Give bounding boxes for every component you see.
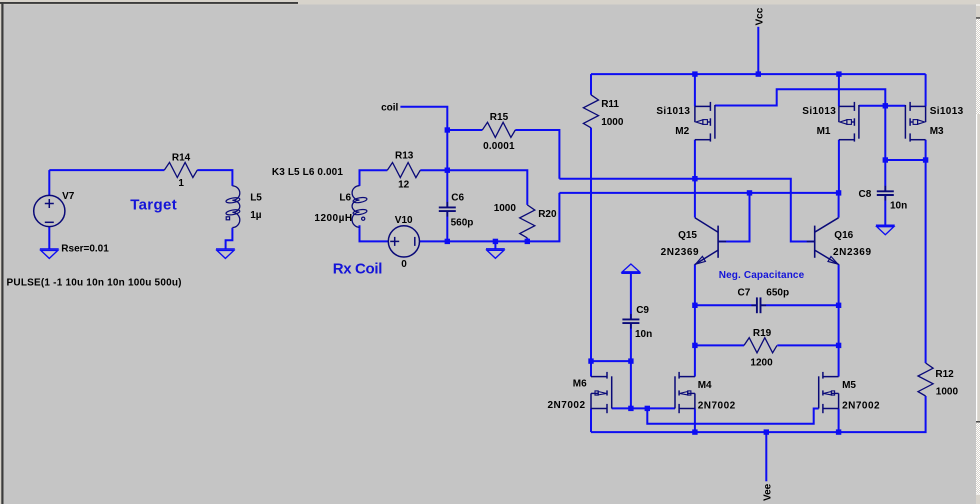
comment Rx Coil [333,261,383,278]
svg-text:0: 0 [401,259,407,270]
wire M2 drain bus [559,179,814,242]
svg-text:650p: 650p [766,288,789,299]
capacitor C8 [877,186,894,201]
net flag Vcc [754,7,765,25]
svg-text:0.0001: 0.0001 [483,141,515,152]
value Q15 2N2369 [661,247,699,258]
wire coil label to node [400,107,447,208]
voltage source V10 [388,226,419,257]
wire R11 bottom long [590,128,592,361]
label L6 [339,192,351,203]
svg-text:10n: 10n [890,200,907,211]
label Si1013 M1 [802,106,836,117]
nmos M5 [819,372,839,413]
svg-text:10n: 10n [635,329,652,340]
value M4 2N7002 [698,400,736,411]
label V10 [395,215,413,226]
label V7 [62,191,75,202]
svg-text:V10: V10 [395,215,413,226]
label R11 [601,99,619,110]
svg-text:Si1013: Si1013 [802,106,836,117]
wire R15 right down [515,130,559,179]
wire M2 gate to mirror node [715,89,885,106]
wire M6 drain to C9 [591,360,631,362]
wire L6 bottom to V10 [360,225,389,241]
wire M5 drain lead [838,345,840,376]
value M5 2N7002 [842,400,880,411]
svg-text:1200: 1200 [750,358,773,369]
wire gate node down to C8 [884,106,886,191]
npn Q16 [807,218,839,265]
svg-text:C9: C9 [636,305,649,316]
capacitor C9 [622,314,639,329]
wire V7 top lead [48,170,50,196]
label M4 [698,380,712,391]
wire R11 top [590,74,592,95]
inductor L6 [352,186,367,228]
svg-text:2N2369: 2N2369 [833,247,871,258]
wire inverted ground to C9 [630,273,632,319]
label Si1013 M3 [930,106,964,117]
inductor L5 [226,186,241,228]
wire rx ground stub [494,241,496,249]
wire Q16 emitter lead [838,264,840,305]
svg-text:R20: R20 [538,209,557,220]
inverted ground above C9 [621,264,640,273]
wire M3 drain lead long [925,140,927,363]
wire nmos gate bus [612,407,675,409]
value V10 0 [401,259,407,270]
pmos M3 [905,102,925,142]
wire top rail left circuit [49,169,164,171]
svg-text:1200µH: 1200µH [314,213,352,224]
wire node to R15 [447,129,482,131]
svg-text:R19: R19 [753,328,772,339]
wire M6 source lead [590,409,592,433]
resistor R20 [520,205,535,238]
directive PULSE [7,277,182,288]
label M2 [675,126,689,137]
svg-text:M5: M5 [842,380,856,391]
value R12 1000 [936,386,959,397]
svg-text:Neg. Capacitance: Neg. Capacitance [719,270,805,281]
svg-text:Target: Target [130,197,177,214]
ground under C8 [876,225,895,234]
svg-text:C8: C8 [859,189,872,200]
wire R20 bottom [526,238,528,242]
value R11 1000 [601,117,624,128]
svg-text:R13: R13 [395,151,414,162]
wire M2 drain lead [694,140,696,179]
svg-text:C6: C6 [451,192,464,203]
resistor R19 [744,338,777,353]
resistor R14 [164,162,197,177]
svg-text:12: 12 [398,180,410,191]
svg-text:1000: 1000 [601,117,624,128]
wire gate bus to M5 [647,408,818,423]
label C6 [451,192,464,203]
wire Q16 emitter to R19 [838,305,840,345]
svg-text:Si1013: Si1013 [656,106,690,117]
wire C9 bottom [630,323,632,408]
wire M2 source lead [694,74,696,106]
label R13 [395,151,414,162]
wire Vee lead [765,432,767,481]
svg-text:1µ: 1µ [250,210,262,221]
wire R14 to L5 [197,170,232,186]
wire V7 bottom lead [48,227,50,249]
svg-text:2N7002: 2N7002 [548,400,586,411]
value L5 1u [250,210,262,221]
wire M1-M3 gate node [859,105,906,107]
svg-text:M2: M2 [675,126,689,137]
resistor R13 [387,163,420,178]
label C9 [636,305,649,316]
svg-text:2N7002: 2N7002 [698,400,736,411]
svg-text:M3: M3 [930,126,944,137]
value Q16 2N2369 [833,247,871,258]
wire Q15 base wire [718,193,749,242]
label R12 [935,369,954,380]
wire M1 source lead [838,74,840,106]
label Q16 [834,230,853,241]
svg-text:M6: M6 [573,378,587,389]
svg-text:V7: V7 [62,191,75,202]
voltage source V7 [34,195,65,226]
svg-text:Rser=0.01: Rser=0.01 [61,243,109,254]
wire R19 right lead [777,344,838,346]
wire M6 drain lead [590,361,592,377]
svg-text:K3 L5 L6 0.001: K3 L5 L6 0.001 [272,167,343,178]
svg-text:M4: M4 [698,380,712,391]
ground under V7 [40,249,59,258]
svg-text:R12: R12 [935,369,954,380]
net label coil [381,102,398,113]
pmos M2 [695,102,715,142]
resistor R11 [583,95,598,128]
label Si1013 M2 [656,106,690,117]
svg-text:Si1013: Si1013 [930,106,964,117]
directive K3 [272,167,343,178]
value C9 10n [635,329,652,340]
wire Q15 collector lead [694,179,696,218]
value C8 10n [890,200,907,211]
label M1 [817,126,831,137]
wire M1 drain bus [559,192,838,194]
wire C7 left [695,304,757,306]
wire C6 bottom [446,211,448,241]
wire C7 right [761,304,839,306]
nmos M6 [591,372,612,413]
ground at rx rail [486,249,505,258]
wire M5 source lead [838,409,840,433]
svg-text:2N2369: 2N2369 [661,247,699,258]
label Rser [61,243,109,254]
value R20 1000 [494,203,517,214]
value M6 2N7002 [548,400,586,411]
label R15 [490,112,509,123]
capacitor C6 [439,202,456,217]
wire R13 to R20 top [420,170,527,205]
net flag Vee [762,483,773,501]
wire M4 drain lead [694,345,696,376]
scrollbar right [976,5,980,504]
svg-text:C7: C7 [738,287,751,298]
svg-text:Vee: Vee [762,483,773,501]
wire top supply rail [591,73,926,75]
wire M1 drain lead [838,140,840,193]
value R15 [483,141,515,152]
resistor R12 [918,363,933,396]
value R14 1 [178,178,184,189]
svg-text:1000: 1000 [494,203,517,214]
capacitor C7 [751,297,766,313]
label Q15 [678,230,697,241]
svg-text:560p: 560p [451,218,474,229]
svg-text:1000: 1000 [936,386,959,397]
value R19 1200 [750,358,773,369]
wire R12 bottom to rail [591,396,926,432]
wire M4 source lead [694,409,696,433]
value C7 650p [766,288,789,299]
svg-text:2N7002: 2N7002 [842,400,880,411]
npn Q15 [695,218,726,265]
ground under L5 [216,249,235,258]
wire Q16 collector lead [838,193,840,218]
value L6 1200uH [314,213,352,224]
value C6 560p [451,218,474,229]
resistor R15 [482,122,515,137]
svg-text:Q15: Q15 [678,230,697,241]
comment Neg. Capacitance [719,270,805,281]
label R14 [172,153,191,164]
value R13 12 [398,180,410,191]
svg-text:coil: coil [381,102,398,113]
svg-text:M1: M1 [817,126,831,137]
label R19 [753,328,772,339]
svg-text:R14: R14 [172,153,191,164]
svg-text:L5: L5 [250,193,262,204]
wire M3 source lead [925,74,927,106]
wire R19 left lead [695,344,744,346]
comment Target [130,197,177,214]
label L5 [250,193,262,204]
wire C8 bottom [884,195,886,225]
wire Q15 emitter lead [694,264,696,305]
wire rx bottom rail [420,193,560,242]
svg-text:R15: R15 [490,112,509,123]
svg-text:Rx Coil: Rx Coil [333,261,383,278]
label C8 [859,189,872,200]
label M3 [930,126,944,137]
pmos M1 [839,102,859,142]
label M5 [842,380,856,391]
label C7 [738,287,751,298]
wire node to M3 drain [885,159,925,161]
svg-text:Vcc: Vcc [754,7,765,25]
label M6 [573,378,587,389]
svg-text:PULSE(1 -1 10u 10n 10n 100u 50: PULSE(1 -1 10u 10n 10n 100u 500u) [7,277,182,288]
svg-text:Q16: Q16 [834,230,853,241]
wire L6 to R13 [360,170,388,186]
wire Vcc lead [757,27,759,74]
svg-text:1: 1 [178,178,184,189]
nmos M4 [675,372,695,413]
svg-text:R11: R11 [601,99,619,110]
label R20 [538,209,557,220]
wire L5 to ground [226,228,233,249]
wire Q15 emitter to R19 [694,305,696,345]
svg-text:L6: L6 [339,192,351,203]
